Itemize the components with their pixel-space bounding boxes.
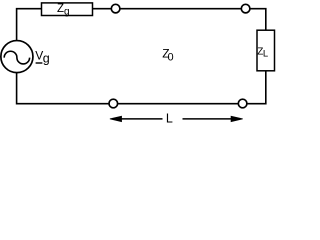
dimension line right segment with right arrowhead: [183, 118, 233, 120]
svg-text:Z0: Z0: [162, 47, 173, 64]
node terminal: bottom left (input port -): [109, 99, 118, 108]
node terminal: top left (input port +): [111, 4, 120, 13]
dimension line left segment with left arrowhead: [121, 118, 163, 120]
wire: source top to Zg left (left vertical + top-left horizontal): [17, 9, 42, 41]
resistor Zg (generator impedance box): [42, 3, 93, 16]
wire: Zg right across top to right corner, down to ZL top: [93, 9, 266, 31]
phasor underline under V: [36, 62, 43, 64]
AC source sine symbol: [4, 51, 29, 64]
node terminal: bottom right (load port -): [238, 99, 247, 108]
wire: ZL bottom down, bottom wire to left, up to source bottom: [17, 71, 266, 104]
node terminal: top right (load port +): [241, 4, 250, 13]
AC source Vg (circle): [1, 41, 33, 73]
load ZL (box): [257, 30, 275, 71]
svg-text:L: L: [166, 111, 173, 125]
